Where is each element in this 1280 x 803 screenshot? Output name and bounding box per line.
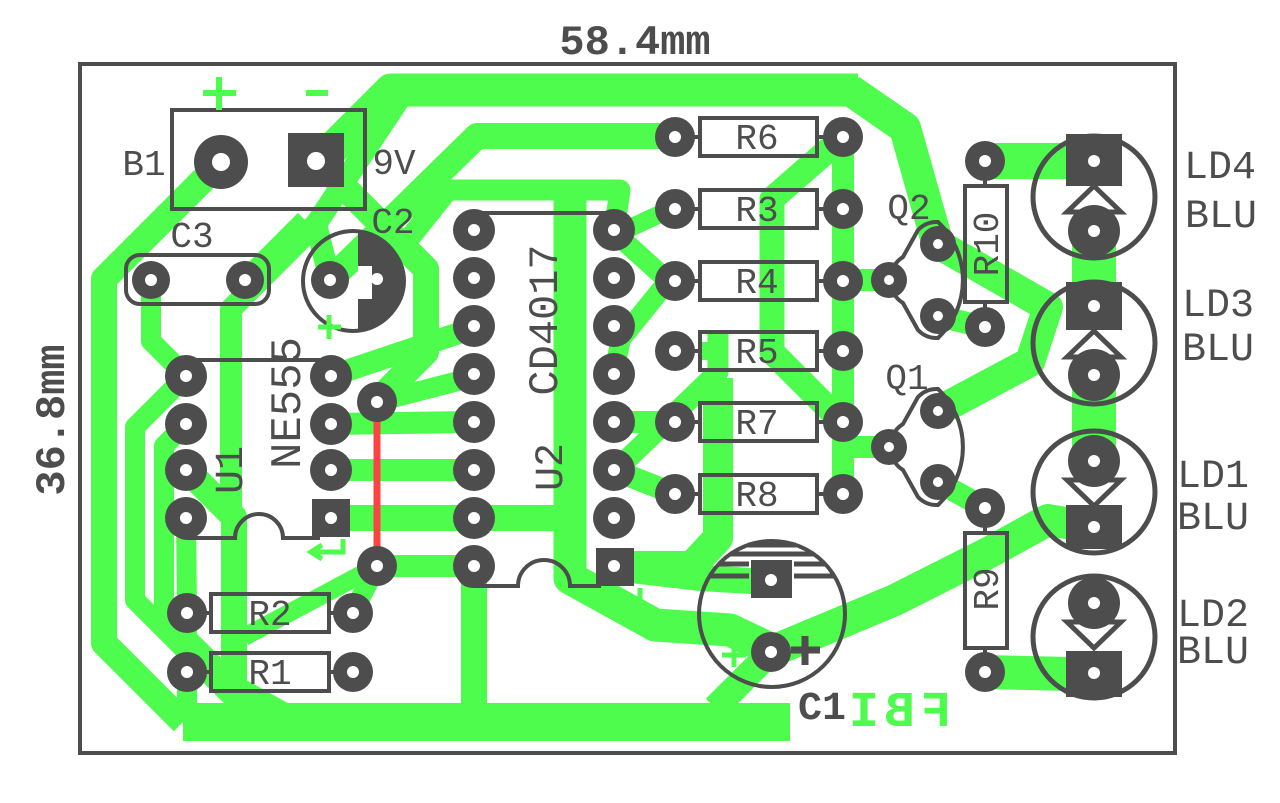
svg-text:B1: B1 <box>122 145 165 186</box>
svg-text:Q2: Q2 <box>887 189 930 230</box>
svg-text:R8: R8 <box>735 476 778 517</box>
svg-text:NE555: NE555 <box>264 337 314 469</box>
svg-text:U2: U2 <box>530 443 575 491</box>
svg-text:58.4mm: 58.4mm <box>559 19 710 67</box>
svg-text:U1: U1 <box>210 446 255 494</box>
svg-text:FBI: FBI <box>843 685 951 742</box>
svg-text:36.8mm: 36.8mm <box>29 344 77 495</box>
svg-text:R3: R3 <box>735 191 778 232</box>
svg-text:LD3: LD3 <box>1182 284 1254 329</box>
svg-text:R5: R5 <box>735 333 778 374</box>
svg-text:C3: C3 <box>170 217 213 258</box>
svg-text:R2: R2 <box>248 595 291 636</box>
svg-text:BLU: BLU <box>1177 631 1249 676</box>
svg-text:C2: C2 <box>371 203 414 244</box>
svg-text:R7: R7 <box>735 404 778 445</box>
svg-text:LD4: LD4 <box>1184 146 1256 191</box>
svg-text:R4: R4 <box>735 263 778 304</box>
svg-text:9V: 9V <box>372 144 416 185</box>
svg-text:R6: R6 <box>735 119 778 160</box>
svg-text:BLU: BLU <box>1182 328 1254 373</box>
svg-text:R9: R9 <box>968 567 1009 610</box>
svg-text:R10: R10 <box>968 212 1009 277</box>
svg-text:R1: R1 <box>248 654 291 695</box>
svg-text:C1: C1 <box>798 687 846 732</box>
svg-text:CD4017: CD4017 <box>522 244 570 395</box>
svg-text:BLU: BLU <box>1185 195 1257 240</box>
svg-text:Q1: Q1 <box>885 359 928 400</box>
svg-text:BLU: BLU <box>1177 497 1249 542</box>
svg-text:LD1: LD1 <box>1177 455 1249 500</box>
